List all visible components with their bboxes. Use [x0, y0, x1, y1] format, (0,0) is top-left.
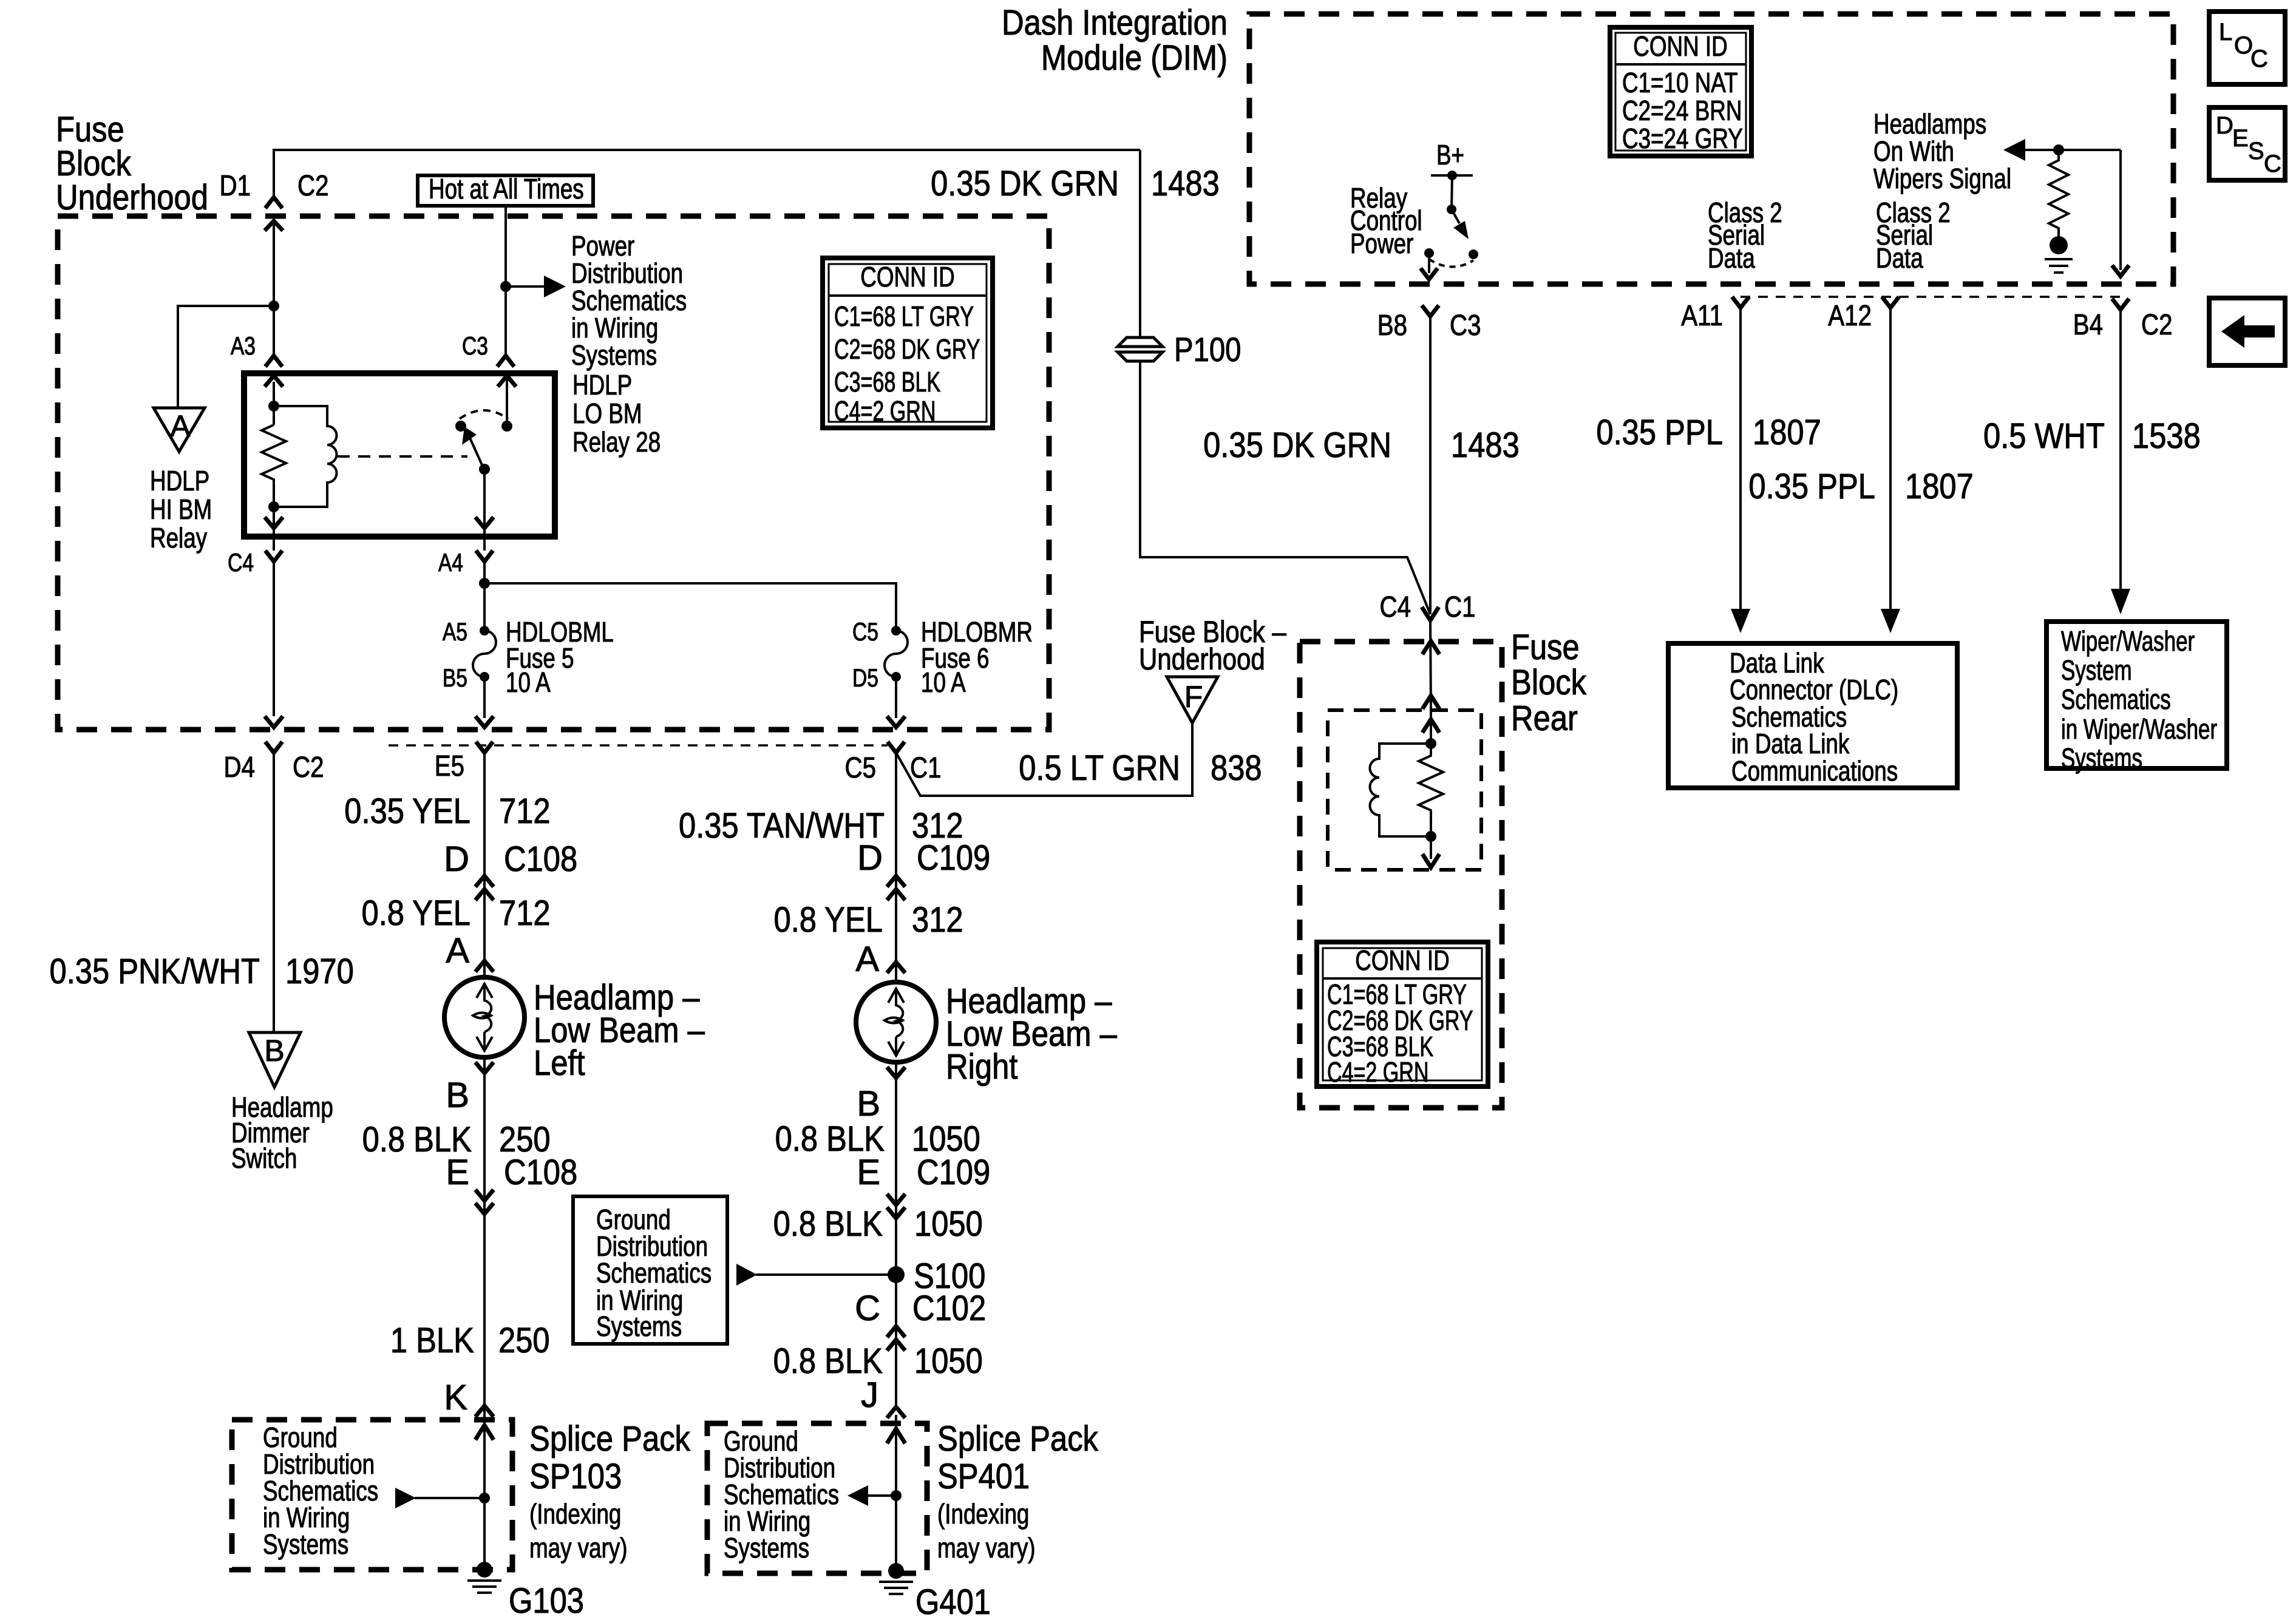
wire: branch to HDLP HI BM relay triangle A: [178, 306, 274, 408]
label Fuse Block Rear: [1511, 628, 1587, 738]
svg-text:712: 712: [499, 792, 551, 831]
wire: C1 into fuse block rear: [1430, 620, 1431, 710]
wire: fuse 5 to E5: [483, 677, 486, 718]
svg-text:Data: Data: [1876, 242, 1923, 274]
wire: B8 down to C1: [1429, 316, 1432, 614]
svg-text:312: 312: [912, 900, 963, 940]
label HDLP HI BM Relay: [150, 465, 212, 554]
svg-text:Dash Integration: Dash Integration: [1002, 3, 1228, 42]
svg-text:CONN ID: CONN ID: [1355, 944, 1449, 976]
label 0.35 TAN/WHT 312: [679, 806, 963, 846]
pin B chevron left lamp: [475, 1062, 494, 1073]
arrow to Power Distribution Schematics: [506, 276, 566, 297]
svg-text:Rear: Rear: [1511, 699, 1578, 738]
svg-text:C2: C2: [293, 751, 324, 784]
label E C109: [857, 1153, 990, 1192]
svg-text:B8: B8: [1377, 310, 1407, 342]
relay control switch blade arrow: [1452, 209, 1469, 239]
svg-text:Data: Data: [1708, 242, 1755, 274]
label Headlamps On With Wipers Signal: [1873, 108, 2011, 194]
svg-text:0.8 BLK: 0.8 BLK: [773, 1204, 883, 1244]
label Fuse Block - Underhood: [1139, 615, 1286, 676]
svg-text:C4: C4: [228, 548, 254, 577]
relay switch blade with arrowhead: [462, 427, 484, 470]
connector C109 D chevrons: [887, 876, 905, 900]
connector C4/C1 fork: [1422, 607, 1439, 620]
svg-text:0.5 LT GRN: 0.5 LT GRN: [1019, 748, 1180, 788]
svg-text:10 A: 10 A: [921, 666, 966, 698]
wire: below resistor to coil bottom dot: [273, 480, 275, 517]
label Wiper/Washer System Schematics: [2061, 625, 2217, 774]
Dash Integration Module (DIM) dashed box: [1249, 14, 2173, 284]
svg-text:250: 250: [498, 1321, 550, 1360]
triangle A (HDLP HI BM Relay pointer): [154, 408, 205, 452]
DESC box: [2209, 107, 2285, 180]
connector C4 fork: [265, 537, 282, 561]
dashed actuation link: [338, 455, 467, 458]
label 0.8 BLK 1050 (above E C109): [775, 1119, 980, 1159]
svg-text:0.35 DK GRN: 0.35 DK GRN: [1203, 425, 1391, 465]
arrow from ground distribution box to S100: [736, 1264, 896, 1286]
Fuse Block Underhood title: [56, 110, 208, 217]
pin arrow inside SP103: [475, 1425, 494, 1440]
junction dot power distribution branch: [500, 281, 511, 292]
wire: D1 to relay A3: [273, 221, 275, 356]
svg-text:A4: A4: [438, 548, 463, 577]
svg-text:C4: C4: [1380, 591, 1411, 623]
label Splice Pack SP401 (Indexing may vary): [937, 1419, 1099, 1564]
svg-text:Hot at All Times: Hot at All Times: [429, 173, 584, 205]
connector D1/C2 fork (female): [265, 197, 282, 208]
connector D1/C2 labels: [220, 170, 329, 202]
relay switch pivot dot: [479, 464, 490, 475]
ground (DIM internal): [2045, 236, 2073, 273]
svg-text:0.5 WHT: 0.5 WHT: [1983, 416, 2105, 456]
svg-text:Systems: Systems: [596, 1310, 682, 1342]
svg-text:A12: A12: [1828, 300, 1872, 332]
label C C102: [855, 1289, 986, 1328]
label 1 BLK 250: [390, 1321, 550, 1360]
label Headlamp Dimmer Switch: [231, 1091, 333, 1174]
wire: Hot at All Times down to C3: [504, 206, 507, 356]
svg-text:D: D: [857, 838, 883, 878]
label 0.8 BLK 1050 (below C102): [773, 1341, 983, 1381]
svg-text:1050: 1050: [914, 1341, 983, 1381]
svg-text:0.8 YEL: 0.8 YEL: [362, 893, 471, 933]
label 0.8 BLK 250: [362, 1120, 551, 1159]
label 0.35 PPL 1807 (A11): [1596, 413, 1821, 452]
relay control switch stem: [1447, 175, 1456, 214]
ground distribution solid box (S100): [573, 1196, 727, 1344]
svg-text:0.35 YEL: 0.35 YEL: [344, 792, 470, 831]
svg-text:Systems: Systems: [263, 1528, 348, 1560]
svg-text:C109: C109: [917, 1153, 990, 1192]
wire: coil bottom down with arrow: [1422, 822, 1439, 867]
svg-text:1483: 1483: [1451, 425, 1520, 465]
svg-text:may vary): may vary): [937, 1532, 1036, 1564]
svg-text:Communications: Communications: [1731, 755, 1898, 787]
svg-text:C: C: [855, 1289, 880, 1328]
svg-text:B: B: [446, 1076, 469, 1115]
svg-text:D4: D4: [224, 751, 256, 784]
label D C108: [444, 839, 577, 879]
svg-text:1538: 1538: [2132, 416, 2201, 456]
svg-text:C102: C102: [912, 1289, 986, 1328]
svg-text:C: C: [2250, 46, 2268, 72]
wire: fuse 6 to C5 connector: [895, 677, 897, 718]
svg-text:Schematics: Schematics: [2061, 683, 2171, 715]
relay pin arrow C4 inside: [265, 517, 283, 528]
pin chevron at inner module: [1422, 696, 1439, 709]
wire: A11 class 2 serial data to DLC: [1731, 308, 1750, 633]
junction dot coil bottom: [268, 501, 279, 512]
label 0.8 YEL 712: [362, 893, 551, 933]
svg-text:C2: C2: [2141, 309, 2173, 341]
svg-text:D1: D1: [220, 170, 251, 202]
junction dot coil top: [268, 401, 279, 412]
pin A chevron left lamp: [475, 961, 494, 972]
connector D4/C2 labels: [224, 751, 324, 784]
label Ground Distribution Schematics in Wiring Systems (S100): [596, 1204, 712, 1342]
svg-text:1807: 1807: [1905, 467, 1974, 506]
connector A11 fork: [1681, 297, 1749, 332]
wire: headlamp left to splice pack SP103: [483, 1057, 486, 1406]
svg-text:B4: B4: [2073, 309, 2103, 341]
grommet P100: [1118, 330, 1241, 368]
wire: headlamp right to S100 and SP401: [895, 1063, 897, 1407]
Wiper/Washer box: [2046, 622, 2227, 768]
headlamp low beam right bulb: [856, 982, 936, 1062]
svg-text:0.35 TAN/WHT: 0.35 TAN/WHT: [679, 806, 885, 846]
svg-text:10 A: 10 A: [506, 666, 551, 698]
svg-text:Splice Pack: Splice Pack: [529, 1419, 691, 1459]
connector C3 fork: [497, 356, 514, 367]
svg-text:System: System: [2061, 654, 2132, 686]
arrow to ground distribution schematics (SP401): [847, 1485, 896, 1506]
svg-text:0.35 PPL: 0.35 PPL: [1596, 413, 1723, 452]
LOC box: [2209, 12, 2285, 84]
svg-text:C108: C108: [504, 1153, 577, 1192]
pin arrow into fuse block rear: [1422, 641, 1439, 654]
Hot at All Times box: [418, 173, 593, 206]
fuse 6 labels: [852, 616, 1033, 698]
svg-text:Underhood: Underhood: [56, 178, 208, 217]
svg-text:Power: Power: [1350, 228, 1413, 259]
svg-text:Fuse: Fuse: [1511, 628, 1580, 667]
svg-text:CONN ID: CONN ID: [1633, 30, 1727, 62]
Fuse Block Underhood dashed box: [58, 216, 1049, 730]
svg-text:J: J: [861, 1375, 878, 1415]
svg-text:C1: C1: [1444, 591, 1476, 623]
inner module dashed box (fuse block rear relay): [1328, 710, 1481, 870]
svg-text:1807: 1807: [1753, 413, 1821, 452]
junction dot SP103: [479, 1493, 490, 1503]
svg-text:SP401: SP401: [937, 1457, 1030, 1496]
relay coil (inductor): [274, 406, 337, 507]
wire: 0.5 LT GRN to F triangle: [896, 723, 1192, 796]
svg-text:D: D: [2216, 112, 2233, 139]
label Relay Control Power: [1350, 182, 1422, 259]
svg-text:Module (DIM): Module (DIM): [1041, 38, 1228, 78]
label Headlamp Low Beam Left: [534, 978, 705, 1083]
resistor (relay coil suppression): [262, 425, 286, 486]
svg-text:1 BLK: 1 BLK: [390, 1321, 474, 1360]
svg-text:Wipers Signal: Wipers Signal: [1873, 163, 2011, 194]
relay pin arrow A4 inside: [475, 517, 494, 528]
junction dot fuse branch: [479, 578, 490, 589]
wire: wipers signal to B4: [2112, 150, 2129, 276]
relay control switch contacts: [1424, 248, 1478, 267]
wire: branch to fuse 6: [484, 583, 896, 631]
svg-text:C3=24 GRY: C3=24 GRY: [1622, 123, 1743, 154]
wire: C1 down to headlamp right: [895, 753, 897, 983]
label HDLP LO BM Relay 28: [572, 369, 661, 458]
label Power Distribution Schematics in Wiring Systems: [571, 230, 687, 371]
svg-text:L: L: [2219, 19, 2232, 46]
svg-text:1483: 1483: [1151, 164, 1220, 203]
svg-text:S: S: [2248, 138, 2264, 164]
wire: switch pivot down to A4 pin: [483, 469, 486, 537]
svg-text:C2=24 BRN: C2=24 BRN: [1622, 95, 1742, 126]
male arrow into C5: [887, 716, 905, 727]
Data Link Connector box: [1668, 643, 1957, 788]
wire: J into SP401 ground: [895, 1415, 897, 1566]
svg-text:C1=10 NAT: C1=10 NAT: [1622, 67, 1738, 98]
svg-text:1970: 1970: [285, 952, 354, 991]
svg-text:Systems: Systems: [571, 339, 657, 371]
label 0.8 BLK 1050 (above S100): [773, 1204, 983, 1244]
junction dot A3 branch: [268, 300, 279, 311]
wire: relay control power to B8: [1421, 253, 1438, 279]
thin dashed connector boundary line: [389, 744, 888, 747]
junction dot FB rear coil bottom: [1425, 831, 1436, 842]
connector B8/C3 labels: [1377, 310, 1481, 342]
pin B chevron right lamp: [887, 1067, 905, 1078]
svg-text:C2=68 DK GRY: C2=68 DK GRY: [834, 333, 980, 365]
svg-text:C: C: [2264, 151, 2281, 177]
B+ feed bar: [1431, 171, 1473, 180]
connector B4/C2 labels: [2073, 309, 2173, 341]
fuse 5 labels: [443, 616, 614, 698]
svg-text:E: E: [446, 1153, 469, 1192]
Splice Pack SP103 dashed box: [232, 1420, 512, 1570]
svg-text:B: B: [264, 1034, 284, 1068]
svg-text:C1: C1: [910, 752, 942, 784]
thin dashed connector boundary (DIM bottom): [1741, 296, 2121, 298]
connector C102 chevrons: [887, 1326, 905, 1351]
wire: K into SP103 ground: [483, 1406, 486, 1565]
wire: A12 class 2 serial data to DLC: [1881, 308, 1900, 633]
svg-text:0.35 PPL: 0.35 PPL: [1748, 467, 1875, 506]
fuse 5 HDLOBML: [473, 626, 496, 682]
svg-text:0.8 YEL: 0.8 YEL: [774, 900, 883, 940]
wire: coil to C4 pin: [273, 517, 275, 537]
ground G401: [879, 1563, 991, 1617]
svg-text:(Indexing: (Indexing: [937, 1498, 1029, 1530]
svg-text:A11: A11: [1681, 300, 1723, 332]
relay pin arrow A3 inside: [265, 376, 283, 387]
label 0.5 LT GRN 838: [1019, 748, 1262, 788]
svg-text:A5: A5: [443, 617, 467, 646]
svg-text:E: E: [2232, 125, 2249, 152]
Fuse Block Rear dashed box: [1300, 642, 1502, 1108]
svg-text:712: 712: [499, 893, 551, 933]
pin arrow inside SP401: [887, 1429, 905, 1443]
junction dot FB rear coil top: [1425, 738, 1436, 749]
label Class 2 Serial Data (A12): [1876, 197, 1951, 274]
svg-text:LO BM: LO BM: [572, 398, 642, 429]
wire: C4 down to FBU bottom: [273, 561, 275, 716]
connector B4/C2 fork: [2112, 299, 2129, 310]
label 0.5 WHT 1538: [1983, 416, 2201, 456]
svg-text:B: B: [857, 1084, 880, 1124]
svg-text:Relay 28: Relay 28: [572, 426, 661, 458]
dashed throw arc: [460, 410, 508, 419]
wire: relay coil left leg: [273, 382, 275, 425]
CONN ID table (fuse block underhood): [823, 258, 993, 428]
svg-text:HI BM: HI BM: [150, 493, 212, 525]
svg-text:C4=2 GRN: C4=2 GRN: [1327, 1056, 1428, 1088]
connector B8/C3 fork: [1422, 305, 1439, 316]
wire: E5 down to headlamp left: [483, 753, 486, 978]
svg-text:HDLP: HDLP: [150, 465, 209, 497]
label 0.8 YEL 312: [774, 900, 963, 940]
svg-text:G103: G103: [509, 1581, 584, 1617]
label Splice Pack SP103 (Indexing may vary): [529, 1419, 691, 1564]
arrow to headlamps-on-with-wipers signal: [2003, 139, 2121, 161]
label 0.35 PPL 1807 (A12): [1748, 467, 1973, 506]
svg-text:0.35 DK GRN: 0.35 DK GRN: [931, 164, 1119, 203]
pin A chevron right lamp: [887, 962, 905, 973]
label Ground Distribution Schematics in Wiring Systems (SP103): [263, 1422, 378, 1560]
label Data Link Connector (DLC) Schematics: [1730, 647, 1898, 787]
label 0.35 DK GRN 1483 (B8): [1203, 425, 1520, 465]
svg-text:C3=68 BLK: C3=68 BLK: [834, 366, 940, 398]
relay switch contact right: [501, 421, 512, 432]
connector A4 fork: [476, 537, 493, 561]
coil (fuse block rear): [1370, 744, 1432, 836]
svg-text:0.35 PNK/WHT: 0.35 PNK/WHT: [50, 952, 260, 991]
male arrow into E5: [475, 716, 494, 727]
ground G103: [467, 1562, 584, 1617]
label Class 2 Serial Data (A11): [1708, 197, 1782, 274]
wire: P100 feed down: [1139, 150, 1141, 339]
connector A12 fork: [1828, 297, 1899, 332]
triangle B (Headlamp Dimmer Switch pointer): [249, 1032, 301, 1087]
fuse 6 HDLOBMR: [885, 626, 908, 682]
svg-text:B5: B5: [443, 663, 467, 692]
wire: B4 0.5 WHT to wiper/washer: [2111, 310, 2130, 614]
wire: A4 down to fuse 5: [483, 561, 486, 631]
label Ground Distribution Schematics in Wiring Systems (SP401): [724, 1425, 839, 1564]
svg-text:E5: E5: [435, 750, 464, 782]
connector D4/C2 fork: [265, 742, 282, 753]
connector D1/C2 male arrow: [265, 221, 283, 231]
svg-text:F: F: [1184, 680, 1203, 714]
label Headlamp Low Beam Right: [946, 981, 1117, 1086]
svg-text:A: A: [855, 940, 879, 979]
junction dot wipers signal: [2053, 144, 2064, 155]
resistor (fuse block rear): [1419, 744, 1443, 822]
label 0.35 YEL 712: [344, 792, 550, 831]
svg-text:C108: C108: [504, 839, 577, 879]
svg-text:Systems: Systems: [724, 1532, 809, 1564]
svg-text:838: 838: [1211, 748, 1262, 788]
svg-text:Wiper/Washer: Wiper/Washer: [2061, 625, 2195, 657]
svg-text:Switch: Switch: [231, 1142, 297, 1174]
svg-text:C2: C2: [297, 170, 329, 202]
headlamp low beam left bulb: [444, 977, 525, 1057]
connector A3 fork: [265, 356, 282, 367]
CONN ID table (DIM): [1610, 27, 1751, 156]
arrow from ground distribution schematics (SP103): [395, 1488, 484, 1508]
resistor (wipers signal pull): [2049, 150, 2068, 237]
connector C5/C1 labels: [845, 752, 942, 784]
svg-text:in Wiper/Washer: in Wiper/Washer: [2061, 713, 2217, 745]
svg-text:Splice Pack: Splice Pack: [937, 1419, 1099, 1459]
svg-text:A: A: [170, 409, 191, 443]
label D C109: [857, 838, 990, 878]
relay pin arrow C3 inside: [498, 376, 516, 387]
splice S100 dot: [888, 1256, 985, 1296]
junction dot SP401: [891, 1490, 902, 1501]
svg-text:C1=68 LT GRY: C1=68 LT GRY: [834, 300, 974, 332]
svg-text:(Indexing: (Indexing: [529, 1498, 621, 1530]
pin arrow inner module: [1422, 719, 1439, 733]
svg-text:A: A: [446, 931, 469, 971]
wire: right contact up to C3 pin: [506, 375, 508, 426]
svg-text:A3: A3: [231, 331, 256, 360]
svg-text:Underhood: Underhood: [1139, 642, 1265, 676]
svg-text:Right: Right: [946, 1047, 1017, 1086]
svg-text:P100: P100: [1174, 330, 1241, 368]
svg-text:C4=2 GRN: C4=2 GRN: [834, 395, 936, 427]
svg-text:G401: G401: [915, 1582, 991, 1617]
Splice Pack SP401 dashed box: [707, 1423, 927, 1573]
connector C4/C1 labels: [1380, 591, 1476, 623]
wire: D4 to headlamp dimmer switch: [273, 753, 275, 1032]
svg-text:1050: 1050: [914, 1204, 983, 1244]
connector C109 E chevrons: [887, 1194, 905, 1218]
connector E5 fork: [476, 742, 493, 753]
label 0.35 DK GRN 1483 (top): [931, 164, 1220, 203]
svg-text:C5: C5: [852, 617, 878, 646]
svg-text:Relay: Relay: [150, 522, 207, 554]
back arrow box: [2209, 298, 2285, 365]
svg-text:Left: Left: [534, 1043, 585, 1083]
svg-text:Systems: Systems: [2061, 742, 2142, 774]
svg-text:E: E: [857, 1153, 880, 1192]
connector C5/C1 fork: [888, 742, 905, 753]
male arrow into D4: [265, 716, 283, 727]
triangle F (Fuse Block Underhood pointer): [1167, 677, 1218, 723]
wire: battery feed horizontal 0.35 DK GRN from D1 to P100: [274, 150, 1140, 197]
svg-text:C3: C3: [462, 331, 488, 360]
label E C108: [446, 1153, 577, 1192]
label 0.35 PNK/WHT 1970: [50, 952, 354, 991]
wire: P100 to C4 connector: [1140, 361, 1430, 614]
svg-text:may vary): may vary): [529, 1532, 628, 1564]
svg-text:Block: Block: [1511, 663, 1587, 702]
svg-text:CONN ID: CONN ID: [860, 261, 954, 293]
HDLP LO BM Relay 28 box: [244, 373, 555, 537]
svg-text:D5: D5: [852, 663, 878, 692]
relay switch contact left: [455, 421, 466, 432]
svg-text:C109: C109: [917, 838, 990, 878]
CONN ID table (fuse block rear): [1317, 942, 1488, 1088]
pin K chevron: [475, 1406, 494, 1417]
Dash Integration Module title: [1002, 3, 1228, 78]
